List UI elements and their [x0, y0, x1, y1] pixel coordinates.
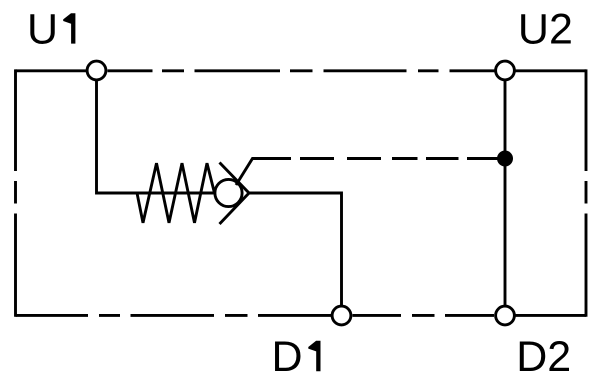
label U2 [518, 5, 573, 53]
port U2 [496, 61, 515, 80]
check valve ball [215, 179, 242, 206]
enclosure right edge (long-short dashed) [585, 69, 588, 316]
label U1 [27, 5, 75, 53]
svg-text:D: D [272, 333, 303, 381]
svg-text:U2: U2 [518, 5, 573, 53]
check valve seat [220, 163, 250, 225]
pilot tap diagonal and solid pilot segment [236, 159, 291, 186]
wire from check valve outlet down to port D1 [248, 193, 342, 307]
enclosure left edge (long-short dashed) [14, 69, 17, 316]
check valve spring [137, 163, 215, 223]
junction dot on pilot/U2-D2 wire [497, 151, 513, 167]
port D2 [496, 306, 515, 325]
wire from port U1 down to check valve inlet [97, 79, 138, 193]
enclosure top edge (long-short dashed) [16, 69, 587, 72]
svg-text:U: U [27, 5, 58, 53]
label D2 [516, 333, 571, 381]
enclosure bottom edge (long-short dashed) [16, 314, 587, 317]
pilot dashed line to junction [300, 157, 503, 160]
label D1 [272, 333, 321, 381]
port D1 [332, 306, 351, 325]
wire from port U2 down to port D2 [504, 79, 507, 307]
port U1 [87, 61, 106, 80]
svg-text:D2: D2 [516, 333, 571, 381]
